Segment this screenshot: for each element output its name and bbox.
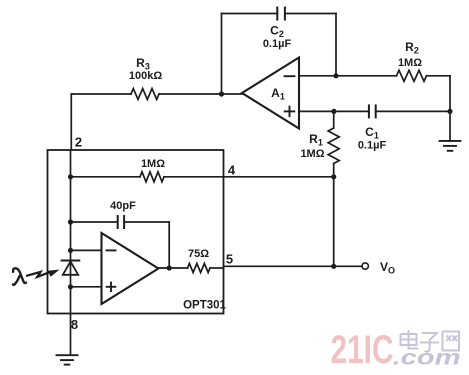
wire top feedback loop right vertical <box>335 14 337 76</box>
op-amp internal OPT301 <box>102 233 159 304</box>
internal op-amp minus sign <box>107 249 116 251</box>
watermark CJK zi <box>420 333 439 352</box>
node photodiode cathode junction <box>68 248 73 253</box>
svg-text:OPT301: OPT301 <box>183 300 226 312</box>
capacitor C1 <box>369 105 376 117</box>
svg-text:5: 5 <box>226 252 233 267</box>
node 40pF junction <box>68 219 73 224</box>
resistor R2 <box>397 70 427 81</box>
internal op-amp plus sign <box>107 283 116 292</box>
node A1 output junction <box>219 91 224 96</box>
wire 40pF down to output <box>168 222 170 268</box>
wire pin4 line with internal 1M resistor <box>71 176 141 178</box>
wire top feedback loop left vertical <box>221 14 223 95</box>
ground right <box>440 141 461 151</box>
svg-text:75Ω: 75Ω <box>188 248 209 260</box>
ground pin8 <box>57 355 78 364</box>
svg-text:2: 2 <box>75 135 82 150</box>
node pin4 junction <box>331 174 336 179</box>
svg-text:1MΩ: 1MΩ <box>141 158 165 170</box>
wire top feedback loop horizontal <box>222 13 278 15</box>
svg-text:100kΩ: 100kΩ <box>129 70 162 82</box>
node C1 right rail junction <box>447 109 452 114</box>
capacitor C2 <box>277 8 285 20</box>
resistor R1 <box>333 111 335 128</box>
wire internal output to 75 ohm <box>158 267 187 269</box>
lambda symbol <box>13 268 26 285</box>
node Vo line junction <box>331 264 336 269</box>
node photodiode anode junction <box>68 284 73 289</box>
resistor 75 ohm <box>188 264 211 273</box>
wire 40pF branch <box>71 221 118 223</box>
svg-text:A1: A1 <box>271 86 285 102</box>
svg-text:C1: C1 <box>365 125 379 141</box>
svg-text:R2: R2 <box>405 40 419 56</box>
wire C1 to right rail <box>376 110 450 112</box>
capacitor 40pF <box>118 216 124 228</box>
resistor 1M internal <box>140 172 164 182</box>
svg-text:C2: C2 <box>270 24 284 40</box>
A1 minus sign <box>285 75 295 77</box>
node internal output junction <box>167 265 172 270</box>
wire internal op-amp non-inverting input <box>71 286 102 288</box>
wire pin2 vertical <box>70 94 72 150</box>
wire pin5 to Vo <box>210 267 224 269</box>
wire internal op-amp inverting input <box>71 249 102 251</box>
lambda light arrow <box>27 270 58 277</box>
svg-text:0.1µF: 0.1µF <box>358 140 387 152</box>
wire A1 inverting input to R2 <box>299 75 397 77</box>
wire R2 to right rail <box>427 75 451 77</box>
svg-text:1MΩ: 1MΩ <box>398 57 422 69</box>
wire right rail vertical <box>449 76 451 141</box>
watermark CJK dian <box>401 330 460 352</box>
svg-text:VO: VO <box>380 260 395 276</box>
svg-text:R1: R1 <box>309 132 323 148</box>
resistor R3 <box>131 89 159 100</box>
watermark CJK wang <box>443 332 460 351</box>
svg-text:21IC: 21IC <box>331 328 394 372</box>
node A1 non-inverting junction <box>331 109 336 114</box>
svg-text:1MΩ: 1MΩ <box>300 148 324 160</box>
op-amp A1 <box>242 58 299 129</box>
node internal 1M junction <box>68 174 73 179</box>
wire pin4 node down to output node <box>333 177 335 266</box>
wire A1 output to R3 to pin2 <box>71 93 131 95</box>
svg-text:8: 8 <box>71 317 78 332</box>
node Vo terminal circle <box>362 263 368 269</box>
node A1 inverting junction <box>333 73 338 78</box>
wire internal node vertical pin2 to pin8 <box>70 150 72 355</box>
A1 plus sign <box>285 107 295 117</box>
OPT301 package box <box>48 150 224 314</box>
svg-text:0.1µF: 0.1µF <box>263 38 292 50</box>
svg-text:40pF: 40pF <box>110 200 136 212</box>
photodiode D1 <box>62 261 80 275</box>
svg-text:4: 4 <box>228 163 236 178</box>
wire A1 non-inverting input to C1 <box>299 110 369 112</box>
